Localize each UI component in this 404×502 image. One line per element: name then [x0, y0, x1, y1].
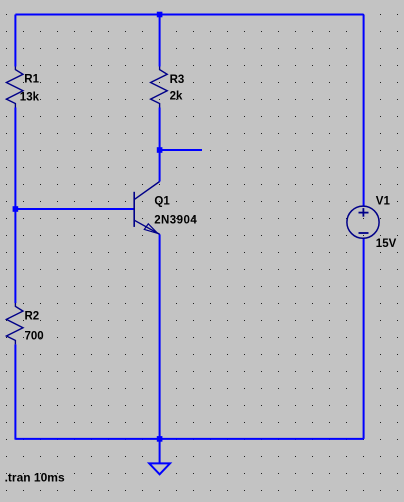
voltage source V1	[347, 206, 379, 238]
wire top to R3	[159, 15, 161, 67]
svg-text:2k: 2k	[170, 90, 183, 102]
wire ground lead	[159, 439, 161, 464]
wire output stub	[160, 149, 202, 151]
resistor R1	[6, 67, 23, 108]
wire left rail lower (R2 to bottom)	[14, 344, 16, 439]
wire left rail upper (top to R1)	[14, 15, 16, 67]
wire right rail lower (V1 to bottom)	[363, 238, 365, 439]
svg-text:15V: 15V	[376, 238, 397, 250]
wire top rail	[15, 14, 363, 16]
svg-text:13k: 13k	[20, 91, 40, 103]
node junction base (left rail)	[13, 206, 19, 212]
resistor R2	[6, 303, 23, 344]
wire emitter to bottom	[159, 234, 161, 439]
resistor R3	[151, 67, 168, 108]
svg-text:2N3904: 2N3904	[154, 215, 197, 227]
node junction output (collector/stub)	[157, 147, 163, 153]
wire R3 to collector	[159, 108, 161, 182]
svg-text:R3: R3	[170, 74, 185, 86]
wire left rail middle (R1 to R2)	[14, 108, 16, 304]
svg-text:.tran 10ms: .tran 10ms	[5, 471, 65, 485]
wire right rail upper (top to V1)	[363, 15, 365, 207]
svg-text:V1: V1	[376, 196, 391, 208]
transistor Q1	[134, 182, 160, 235]
ground	[149, 463, 170, 474]
node junction top (R3/top rail)	[157, 12, 163, 18]
svg-text:R1: R1	[24, 74, 39, 86]
wire base	[15, 208, 134, 210]
wire bottom rail	[15, 438, 363, 440]
svg-text:Q1: Q1	[154, 196, 170, 208]
svg-text:700: 700	[25, 330, 44, 342]
node junction bottom (emitter/bottom rail)	[157, 436, 163, 442]
svg-text:R2: R2	[25, 311, 40, 323]
